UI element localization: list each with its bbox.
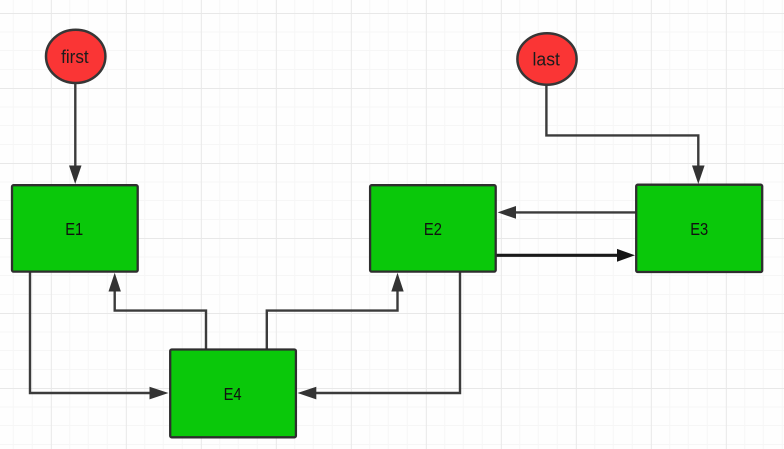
arrowhead into E2 bottom xyxy=(391,273,403,292)
arrowhead into E1 bottom xyxy=(109,273,121,292)
wire E3 to E2 xyxy=(516,211,637,213)
wire E1 to E4 xyxy=(30,272,150,393)
wire first to E1 xyxy=(74,84,76,166)
wire E4 to E1 xyxy=(115,292,206,350)
svg-text:E4: E4 xyxy=(224,384,242,404)
arrowhead into E4 left xyxy=(150,387,169,400)
svg-text:first: first xyxy=(61,47,89,67)
node E1 xyxy=(12,185,138,271)
arrowhead into E3 top xyxy=(692,166,705,185)
wire E2 to E4 xyxy=(316,272,460,393)
arrowhead into E3 left xyxy=(617,249,635,262)
wire E4 to E2 xyxy=(267,292,398,350)
svg-text:last: last xyxy=(533,50,560,70)
svg-text:E1: E1 xyxy=(65,219,83,239)
svg-text:E3: E3 xyxy=(690,219,708,239)
node E4 xyxy=(170,350,296,438)
node first (pointer) xyxy=(46,30,105,83)
node E3 xyxy=(636,185,762,272)
arrowhead into E1 top xyxy=(69,166,82,185)
arrowhead into E4 right xyxy=(298,387,317,400)
wire E2 to E3 xyxy=(496,254,618,257)
wire last to E3 xyxy=(546,86,698,166)
node last (pointer) xyxy=(517,33,576,84)
arrowhead into E2 right xyxy=(498,206,516,219)
node E2 xyxy=(370,185,496,271)
svg-text:E2: E2 xyxy=(424,219,442,239)
